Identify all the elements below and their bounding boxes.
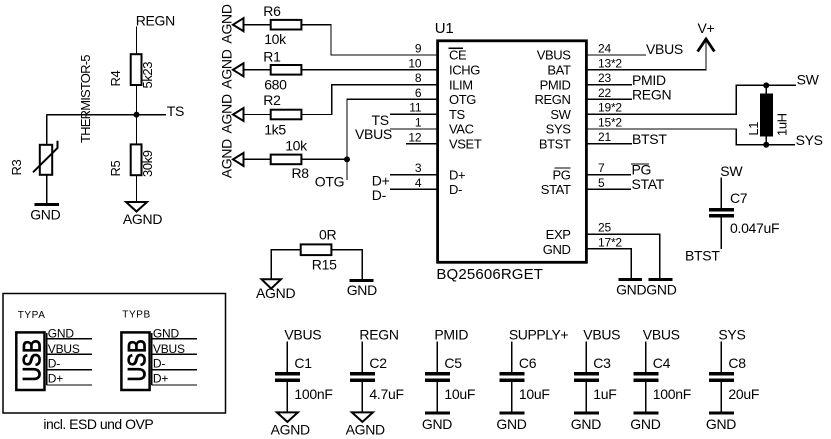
wire AGND to R6 [244,24,271,26]
svg-text:STAT: STAT [632,176,665,192]
capacitor C5 [425,374,450,380]
ground GND (pin 25) [649,278,673,281]
ground GND (C8) [709,412,734,415]
svg-text:100nF: 100nF [653,386,691,402]
wire TS to R3 [46,115,48,145]
junction SYS node [763,142,769,148]
svg-text:10k: 10k [264,31,287,47]
wire VBUS to C4 [645,342,647,373]
svg-text:20uF: 20uF [728,386,759,402]
connector USB TYPB body [121,332,149,390]
svg-text:D+: D+ [449,167,465,182]
svg-text:R5: R5 [108,161,123,177]
wire R1 to pin 10 [301,69,436,71]
svg-text:USB: USB [124,339,151,381]
svg-text:25: 25 [598,221,611,235]
wire C2 to AGND [361,382,363,412]
capacitor C8 [709,374,734,380]
wire C7 to BTST [720,217,722,249]
svg-text:USB: USB [19,339,46,381]
wire pin 21 BTST [586,143,632,145]
wire R15 to GND [331,250,362,279]
svg-text:D-: D- [449,182,462,197]
svg-text:13*2: 13*2 [598,56,622,70]
ground AGND (C1) [277,412,298,422]
svg-text:SYS: SYS [718,327,745,343]
ground GND (under R3) [35,203,59,206]
wire pin 13*2 to V+ [586,40,706,70]
svg-text:9: 9 [415,42,422,56]
svg-text:C6: C6 [519,355,537,371]
svg-text:GND: GND [630,416,660,432]
svg-text:C8: C8 [728,355,746,371]
svg-text:R8: R8 [292,165,310,181]
resistor R6 [271,20,302,30]
resistor R8 [271,155,302,165]
svg-text:BAT: BAT [547,63,571,78]
svg-text:22: 22 [598,86,611,100]
svg-text:CE: CE [449,48,467,63]
svg-text:REGN: REGN [632,87,671,103]
capacitor C1 [275,374,300,380]
wire VBUS to C3 [585,342,587,373]
svg-text:BTST: BTST [539,137,571,152]
svg-text:D-: D- [153,356,165,370]
capacitor C3 [574,374,599,380]
svg-text:D+: D+ [372,172,390,188]
svg-text:D-: D- [48,356,60,370]
wire REGN to R4 [136,27,138,55]
svg-text:VBUS: VBUS [537,48,572,63]
svg-text:100nF: 100nF [294,386,332,402]
svg-text:AGND: AGND [219,94,235,133]
svg-text:10uF: 10uF [519,386,550,402]
svg-text:incl. ESD und OVP: incl. ESD und OVP [43,416,153,432]
svg-text:7: 7 [598,161,605,175]
svg-text:VAC: VAC [449,122,474,137]
svg-text:10: 10 [408,56,421,70]
capacitor C6 [499,374,524,380]
wire D- to pin 4 [390,188,437,190]
junction TS node [134,112,140,118]
svg-text:BQ25606RGET: BQ25606RGET [436,266,543,283]
svg-text:GND: GND [30,207,60,223]
wire pin 23 PMID [586,84,632,86]
wire R15 to AGND [271,250,300,279]
svg-text:PMID: PMID [540,77,571,92]
svg-text:OTG: OTG [315,174,344,190]
svg-text:C2: C2 [369,355,387,371]
svg-text:10uF: 10uF [444,386,475,402]
svg-text:GND: GND [496,416,526,432]
svg-text:GND: GND [571,416,601,432]
svg-text:11: 11 [409,101,422,115]
svg-text:PMID: PMID [434,327,468,343]
svg-text:0.047uF: 0.047uF [730,220,779,236]
svg-text:30k9: 30k9 [140,150,155,177]
svg-text:V+: V+ [698,20,715,36]
wire R8 to OTG junction [301,158,347,160]
wire SUPPLY+ to C6 [511,342,513,373]
svg-text:STAT: STAT [541,182,571,197]
wire C5 to GND [436,382,438,412]
svg-text:SW: SW [797,72,820,88]
wire R5 to AGND [136,175,138,202]
wire C6 to GND [511,382,513,412]
wire TS horizontal [47,114,166,116]
svg-text:1uH: 1uH [775,113,790,136]
capacitor C4 [633,374,658,380]
svg-text:VBUS: VBUS [643,327,680,343]
wire R6 to pin 9 [301,25,436,55]
svg-text:21: 21 [598,130,611,144]
wire pin 7 PG [586,174,631,176]
svg-text:1k5: 1k5 [264,122,286,138]
svg-text:23: 23 [598,71,611,85]
wire REGN to C2 [361,342,363,373]
svg-text:U1: U1 [435,20,454,37]
svg-text:8: 8 [415,71,422,85]
USB connectors frame box [3,294,226,414]
svg-text:GNDGND: GNDGND [616,282,677,298]
svg-text:TS: TS [449,107,466,122]
svg-text:VBUS: VBUS [646,41,683,57]
svg-text:TYPA: TYPA [18,310,46,321]
svg-text:12: 12 [408,130,421,144]
svg-text:GND: GND [543,242,571,257]
svg-text:3: 3 [415,161,422,175]
resistor R4 [131,54,142,85]
svg-text:C3: C3 [593,355,611,371]
svg-text:VBUS: VBUS [284,327,321,343]
wire AGND to R1 [244,69,271,71]
svg-text:R3: R3 [9,160,24,176]
wire pin 25 EXP to GND [586,234,660,278]
svg-text:5: 5 [598,176,605,190]
wire pin 19*2 to SW [586,85,796,114]
wire VBUS to C1 [286,342,288,373]
resistor R2 [271,110,302,120]
wire pin 15*2 to SYS [586,129,795,145]
svg-text:PMID: PMID [632,72,666,88]
connector USB TYPA body [16,332,44,390]
svg-text:GND: GND [347,282,377,298]
svg-text:REGN: REGN [535,92,571,107]
wire OTG stub down [346,159,348,180]
wire SW to C7 [720,178,722,209]
wire R4 to TS node [136,85,138,115]
svg-text:AGND: AGND [256,285,295,301]
svg-text:R6: R6 [263,3,281,19]
svg-text:D+: D+ [48,372,63,386]
svg-text:17*2: 17*2 [598,235,622,249]
svg-text:C4: C4 [653,355,671,371]
ground GND (C4) [633,412,658,415]
svg-text:REGN: REGN [359,327,398,343]
wire pin 17*2 to GND [586,249,631,278]
ground AGND (under R5) [126,202,147,212]
ground AGND (R15 left) [262,279,282,288]
svg-text:ILIM: ILIM [449,77,473,92]
ground GND (pin 17*2) [618,278,642,281]
op-amp U1 IC body [438,41,587,262]
ground GND (C3) [574,412,599,415]
wire TS to pin 11 [390,113,437,115]
svg-text:REGN: REGN [136,12,175,28]
wire OTG to pin 6 [347,99,437,159]
svg-text:SYS: SYS [546,122,572,137]
svg-text:0R: 0R [319,227,336,243]
svg-text:TYPB: TYPB [122,309,151,320]
svg-text:C1: C1 [294,355,312,371]
wire PMID to C5 [436,342,438,373]
wire pin 24 VBUS [586,54,646,56]
wire SYS to C8 [720,342,722,373]
inductor L1 [765,85,767,144]
resistor R1 [271,65,302,75]
svg-text:AGND: AGND [271,421,310,437]
svg-text:AGND: AGND [346,421,385,437]
resistor R15 [301,244,332,255]
svg-text:OTG: OTG [449,92,476,107]
svg-text:C7: C7 [730,190,748,206]
svg-text:4: 4 [415,176,422,190]
svg-text:VBUS: VBUS [583,327,620,343]
wire D+ to pin 3 [390,174,437,176]
svg-text:SW: SW [720,163,743,179]
svg-text:10k: 10k [285,138,308,154]
svg-text:AGND: AGND [219,49,235,88]
svg-text:1: 1 [415,116,422,130]
capacitor C7 [709,210,734,216]
svg-text:L1: L1 [746,122,761,136]
svg-text:AGND: AGND [123,211,162,227]
svg-text:R1: R1 [263,48,281,64]
svg-text:5k23: 5k23 [140,62,155,89]
svg-text:AGND: AGND [219,139,235,178]
wire C8 to GND [720,382,722,412]
ground GND (R15 right) [350,279,374,282]
wire R3 to GND [46,175,48,204]
wire C1 to AGND [286,382,288,412]
svg-text:SUPPLY+: SUPPLY+ [509,327,569,343]
ground GND (C5) [425,412,450,415]
ground AGND (C2) [352,412,373,422]
svg-text:C5: C5 [444,355,462,371]
svg-text:EXP: EXP [546,227,571,242]
wire AGND to R2 [244,114,271,116]
svg-text:R15: R15 [312,256,337,272]
svg-text:15*2: 15*2 [598,116,622,130]
wire pin 22 REGN [586,98,632,100]
svg-text:D-: D- [372,187,387,203]
wire AGND to R8 [244,158,271,160]
svg-text:BTST: BTST [685,247,720,263]
thermistor R3 [40,145,52,175]
svg-text:VSET: VSET [449,137,482,152]
svg-text:19*2: 19*2 [598,101,622,115]
svg-text:SYS: SYS [796,132,823,148]
wire C4 to GND [645,382,647,412]
svg-text:TS: TS [167,103,184,119]
svg-text:ICHG: ICHG [449,63,480,78]
pin 12 stub [406,143,437,145]
wire TS to R5 [136,115,138,145]
svg-text:R2: R2 [263,92,281,108]
wire R2 to pin 8 [301,85,436,115]
svg-text:24: 24 [598,42,611,56]
junction SW node [763,82,769,88]
wire C3 to GND [585,382,587,412]
svg-text:GND: GND [706,416,736,432]
svg-text:BTST: BTST [632,131,667,147]
svg-text:680: 680 [264,77,287,93]
wire pin 5 STAT [586,188,631,190]
svg-text:VBUS: VBUS [355,126,392,142]
svg-text:SW: SW [550,107,571,122]
svg-text:AGND: AGND [219,4,235,43]
svg-text:PG: PG [553,167,571,182]
capacitor C2 [350,374,375,380]
resistor R5 [131,144,142,175]
svg-text:D+: D+ [153,372,168,386]
ground GND (C6) [499,412,524,415]
svg-text:4.7uF: 4.7uF [369,386,403,402]
svg-text:6: 6 [415,86,422,100]
junction OTG node [344,156,350,162]
wire VBUS to pin 1 [390,128,437,130]
svg-text:1uF: 1uF [593,386,616,402]
svg-text:R4: R4 [108,71,123,87]
supply V+ arrow [698,39,715,52]
svg-text:GND: GND [422,416,452,432]
svg-text:THERMISTOR-5: THERMISTOR-5 [78,55,93,143]
